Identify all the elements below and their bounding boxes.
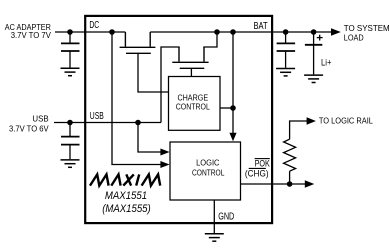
junction dot BAT external 2 bbox=[311, 29, 317, 35]
wire GND bbox=[213, 200, 215, 234]
IC outline U1 bbox=[85, 16, 272, 223]
wire Q2 drain to USB node bbox=[161, 47, 179, 123]
svg-text:MAX1551: MAX1551 bbox=[105, 190, 147, 202]
ground C2 bbox=[61, 160, 80, 167]
junction dot charge output bbox=[230, 105, 236, 111]
junction dot USB internal bbox=[135, 120, 141, 126]
wire POK output bbox=[241, 183, 307, 185]
svg-text:LOGIC: LOGIC bbox=[196, 158, 219, 168]
resistor R1 bbox=[284, 139, 296, 184]
svg-text:DC: DC bbox=[89, 20, 99, 31]
ground GND bbox=[205, 234, 224, 241]
svg-text:TO SYSTEM: TO SYSTEM bbox=[344, 24, 390, 33]
svg-text:CONTROL: CONTROL bbox=[176, 101, 210, 111]
junction dot BAT internal 2 bbox=[230, 29, 236, 35]
svg-text:POK: POK bbox=[255, 159, 270, 169]
label TO SYSTEM LOAD bbox=[344, 24, 390, 42]
junction dot DC internal bbox=[109, 29, 115, 35]
label USB input bbox=[9, 115, 49, 134]
ground C3 bbox=[276, 69, 295, 76]
transistor Q2 bbox=[172, 47, 208, 68]
wire DC input bbox=[55, 31, 125, 33]
svg-text:3.7V TO 7V: 3.7V TO 7V bbox=[11, 31, 52, 40]
svg-text:LOAD: LOAD bbox=[344, 33, 364, 42]
junction dot DC external bbox=[67, 29, 73, 35]
svg-text:Li+: Li+ bbox=[321, 58, 332, 68]
wire USB sense to logic control bbox=[138, 123, 161, 153]
capacitor C3 bbox=[277, 32, 296, 68]
wire charge control to BAT sense bbox=[220, 107, 233, 109]
capacitor C2 bbox=[61, 123, 80, 160]
junction dot POK bbox=[287, 181, 293, 187]
Maxim logo bbox=[90, 174, 160, 185]
wire DC sense to logic control bbox=[112, 32, 161, 165]
ground B1 bbox=[304, 75, 323, 82]
arrowhead DC sense bbox=[160, 161, 169, 168]
wire Q1 gate to charge control bbox=[138, 53, 169, 92]
svg-text:BAT: BAT bbox=[254, 21, 268, 32]
battery B1 Li+ cell bbox=[305, 32, 323, 74]
svg-text:(CHG): (CHG) bbox=[245, 168, 269, 178]
junction dot BAT internal 1 bbox=[214, 29, 220, 35]
label MAX1551 (MAX1555) bbox=[102, 190, 151, 215]
arrowhead USB sense bbox=[160, 149, 169, 156]
svg-text:USB: USB bbox=[90, 111, 104, 122]
arrowhead to system load bbox=[331, 28, 341, 35]
wire to logic rail bbox=[290, 121, 308, 139]
transistor Q1 bbox=[120, 32, 156, 53]
wire Q2 source to BAT node bbox=[204, 32, 217, 48]
svg-text:GND: GND bbox=[218, 212, 234, 223]
wire Q2 gate to charge control bbox=[190, 68, 192, 76]
svg-text:USB: USB bbox=[32, 115, 49, 124]
arrowhead POK output bbox=[305, 180, 315, 187]
arrowhead BAT sense down bbox=[229, 133, 236, 142]
svg-text:CONTROL: CONTROL bbox=[192, 167, 225, 177]
wire USB input bbox=[54, 122, 161, 124]
wire BAT bbox=[150, 31, 332, 33]
label AC ADAPTER input bbox=[5, 23, 52, 40]
svg-text:3.7V TO 6V: 3.7V TO 6V bbox=[9, 124, 49, 133]
svg-text:(MAX1555): (MAX1555) bbox=[102, 203, 151, 215]
label POK (CHG) pin bbox=[245, 159, 270, 179]
block CHARGE CONTROL bbox=[169, 77, 221, 131]
ground C1 bbox=[61, 68, 80, 75]
junction dot USB external bbox=[67, 120, 73, 126]
block LOGIC CONTROL bbox=[170, 142, 241, 200]
wire BAT sense to logic control bbox=[232, 32, 234, 134]
capacitor C1 bbox=[61, 32, 80, 68]
junction dot BAT external 1 bbox=[283, 29, 289, 35]
svg-text:TO LOGIC RAIL: TO LOGIC RAIL bbox=[319, 116, 373, 125]
arrowhead to logic rail bbox=[307, 117, 316, 124]
